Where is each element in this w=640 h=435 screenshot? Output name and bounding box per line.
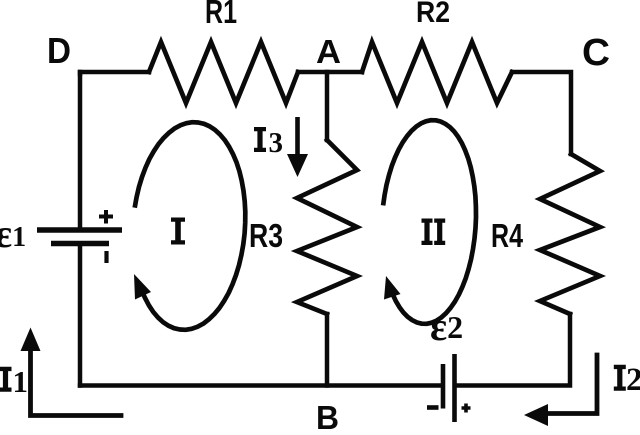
svg-text:R4: R4 [491, 217, 523, 254]
svg-text:D: D [47, 30, 71, 71]
loop II arrowhead [384, 276, 401, 300]
label I3 [254, 127, 266, 152]
loop II curve [383, 120, 476, 324]
loop I arrowhead [134, 274, 151, 300]
wire node A down to R3 [325, 72, 330, 140]
wire top-right (R2 to C corner down to R4) [512, 72, 571, 154]
svg-text:R1: R1 [205, 0, 237, 30]
svg-text:B: B [316, 399, 339, 435]
wire left top (D down to battery e1) [78, 72, 83, 229]
svg-text:C: C [582, 32, 610, 74]
resistor R4 [540, 154, 600, 314]
battery E1 plate short (-) [51, 241, 109, 247]
resistor R1 [149, 42, 298, 103]
battery E2 minus sign [427, 405, 439, 410]
svg-text:ε1: ε1 [0, 211, 26, 256]
battery E2 plate long (+) [452, 354, 457, 422]
wire top-left (D to R1) [80, 72, 149, 74]
battery E1 plate long (+) [37, 227, 122, 233]
resistor R2 [362, 42, 512, 103]
svg-text:2: 2 [626, 362, 640, 398]
wire A segment (R1 end to R2 start) [298, 70, 362, 75]
label I1 [0, 367, 12, 392]
label I loop [171, 218, 185, 245]
arrow I1 line [31, 349, 122, 416]
arrow I1 head [21, 328, 41, 352]
battery E1 plus sign [99, 210, 113, 224]
wire bottom-left (battery e2 to left corner) [80, 383, 441, 388]
svg-text:R3: R3 [249, 217, 283, 254]
resistor R3 [297, 140, 357, 314]
loop I curve [135, 122, 246, 330]
arrow I2 line [546, 355, 597, 414]
battery E1 minus tick [104, 251, 108, 263]
arrow I3 line [295, 117, 300, 156]
label II loop [422, 219, 446, 246]
battery E2 plate short (-) [441, 364, 446, 409]
svg-text:1: 1 [13, 364, 29, 399]
arrow I3 head [287, 154, 308, 177]
wire left bottom (battery e1 down to bottom wire) [78, 244, 83, 386]
label I2 [614, 365, 626, 391]
wire R3 to node B [325, 314, 330, 386]
svg-text:A: A [316, 34, 341, 71]
wire R4 to bottom-right corner to battery [456, 314, 570, 386]
arrow I2 head [524, 404, 548, 426]
svg-text:R2: R2 [416, 0, 450, 29]
battery E2 plus sign [462, 404, 471, 413]
svg-text:3: 3 [269, 127, 284, 159]
